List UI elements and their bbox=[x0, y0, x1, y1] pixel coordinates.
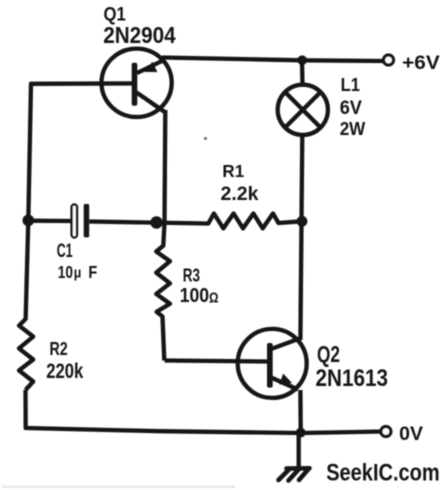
svg-text:2W: 2W bbox=[340, 119, 366, 139]
svg-text:F: F bbox=[88, 262, 97, 282]
svg-text:R2: R2 bbox=[50, 338, 68, 359]
svg-text:L1: L1 bbox=[341, 75, 360, 95]
svg-text:2N1613: 2N1613 bbox=[316, 365, 389, 392]
svg-text:μ: μ bbox=[74, 265, 82, 282]
svg-text:2.2k: 2.2k bbox=[221, 183, 259, 205]
svg-text:R3: R3 bbox=[183, 265, 200, 285]
svg-text:Q2: Q2 bbox=[317, 341, 340, 367]
svg-text:220k: 220k bbox=[46, 360, 83, 383]
svg-text:Ω: Ω bbox=[209, 290, 219, 306]
svg-text:100: 100 bbox=[180, 285, 209, 307]
svg-text:R1: R1 bbox=[222, 161, 244, 181]
svg-text:SeekIC.com: SeekIC.com bbox=[326, 460, 440, 487]
svg-text:C1: C1 bbox=[57, 240, 73, 262]
svg-text:6V: 6V bbox=[340, 98, 363, 119]
svg-text:+6V: +6V bbox=[402, 53, 440, 74]
svg-text:2N2904: 2N2904 bbox=[103, 22, 176, 48]
svg-text:10: 10 bbox=[58, 262, 73, 282]
svg-text:0V: 0V bbox=[399, 423, 423, 445]
